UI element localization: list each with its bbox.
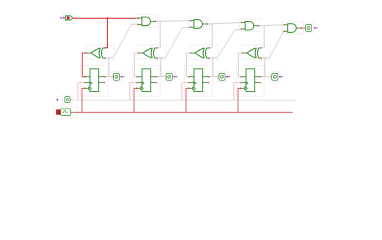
pin dot A4 in2 [283,31,285,33]
flip-flop FF1 [85,69,105,92]
wire Q4 to U4 in2 [261,57,269,59]
wire FF3 Q to probe [209,76,219,78]
pin dot U4 in2 [260,57,262,59]
label probe Q4 [279,76,283,77]
pin dot FF4 EN [240,82,242,84]
label probe Q1 [121,76,125,77]
label probe Q2 [173,76,177,77]
pin dot A4 in1 [283,24,285,26]
component box clock [54,107,78,119]
probe Q2 display [166,73,172,80]
component box AND A3 [240,19,261,32]
wire Q3 to U3 in2 [209,57,217,59]
component box FF3 [185,65,213,96]
component box input T [64,14,75,24]
wire A3 out to A4 in1 [259,24,284,27]
wire Q4 diagonal to A4 in2 [269,32,283,58]
component box input R [63,95,73,104]
pin dot FF2 nQ [156,82,158,84]
wire FF4 Q to probe [261,76,272,78]
pin dot A2 out [207,23,209,25]
wire Q1 to U1 in2 [105,57,113,59]
pin dot U2 in1 [156,47,158,49]
pin dot FF3 CLK [188,88,190,90]
wire Q2 to U2 in2 [157,57,165,59]
component box probe Q1 [112,72,122,82]
wire Q3 diagonal to A3 in2 [217,30,234,58]
pin dot FF4 D [240,76,242,78]
wire diagonal tail to A2 in2 [183,27,190,29]
wire U2 out to FF2 D [134,53,138,77]
wire clock rail [72,111,293,113]
pin dot U1 in1 [104,47,106,49]
component box probe OUT [304,23,314,33]
probe Q3 display [219,73,225,80]
pin dot FF4 CLK [240,88,242,90]
pin dot A2 in1 [189,20,191,22]
pin dot FF3 D [188,76,190,78]
pin dot FF4 nQ [260,82,262,84]
label probe OUT [314,27,318,28]
pin dot FF2 Q [156,76,158,78]
probe OUT display [306,25,312,32]
wire Q1 branch vertical [108,58,110,77]
wire T3 drop to U3 in1 [209,24,212,48]
wire diagonal tail to A4 in2 [282,31,285,33]
wire clock riser FF3 [186,88,189,112]
pin dot U4 in1 [260,47,262,49]
pin dot FF2 D [136,76,138,78]
pin dot A2 in2 [189,26,191,28]
pin dot A3 in1 [241,22,243,24]
wire Q3 branch vertical [212,58,214,77]
wire Q1 diagonal to A1 in2 [113,24,131,58]
pin dot FF1 CLK [84,88,86,90]
pin dot U3 in2 [208,57,210,59]
wire T rail drop to U1 in1 [105,18,107,48]
pin dot FF3 nQ [208,82,210,84]
wire clock riser FF1 [82,88,85,112]
component box XOR U2 [138,45,166,59]
and gate A1 [138,17,155,26]
pin dot U3 in1 [208,47,210,49]
wire FF1 Q to probe [105,76,113,78]
input pin T [65,16,72,20]
wire reset branch FF2 [130,83,137,101]
wire clock riser FF4 [238,88,241,112]
pin dot A1 in2 [137,24,139,26]
wire Q2 branch vertical [160,58,162,77]
pin dot A1 out [155,21,157,23]
junction T rail / XOR1 drop [106,17,108,19]
component box probe Q4 [270,72,280,82]
wire diagonal tail to A1 in2 [132,23,138,25]
probe Q1 display [113,73,119,80]
pin dot FF1 Q [104,76,106,78]
wire U3 out to FF3 D [186,53,190,77]
pin dot A3 out [258,25,260,27]
component box probe Q2 [165,72,175,82]
pin dot U2 out [137,52,139,54]
pin dot FF4 Q [260,76,262,78]
wire diagonal tail to A3 in2 [235,29,241,31]
wire A2 out to A3 in1 [208,23,242,24]
pin dot U4 out [241,52,243,54]
pin dot A4 out [301,27,303,29]
component box AND A1 [136,15,157,28]
pin dot FF2 EN [136,82,138,84]
and gate A4 [284,24,301,33]
component box XOR U4 [242,45,270,59]
pin dot U1 in2 [104,57,106,59]
and gate A3 [242,21,259,30]
pin dot A3 in2 [241,28,243,30]
flip-flop FF2 [137,69,157,92]
xor gate U2 [138,48,157,58]
flip-flop FF4 [241,69,261,92]
pin dot U1 out [85,52,87,54]
component box AND A4 [282,21,303,34]
input pin R [65,97,72,103]
pin dot probe Q2 [165,76,167,78]
label input R [57,99,59,101]
component box XOR U1 [86,45,114,59]
pin dot FF1 D [84,76,86,78]
wire T4 drop to U4 in1 [261,26,264,48]
pin dot probe Q1 [112,76,114,78]
component box XOR U3 [190,45,218,59]
component box probe Q3 [218,72,228,82]
wire Q2 diagonal to A2 in2 [165,28,182,58]
pin dot FF1 nQ [104,82,106,84]
clock generator CLK [56,109,72,116]
label input T [60,17,64,18]
and gate A2 [190,20,207,29]
wire clock riser FF2 [134,88,137,112]
wire FF2 Q to probe [157,76,166,78]
pin dot FF2 CLK [136,88,138,90]
pin dot FF3 Q [208,76,210,78]
wire A1 out to A2 in1 [156,20,190,23]
wire T2 drop to U2 in1 [157,21,160,47]
wire reset branch FF1 [78,83,85,101]
pin dot FF3 EN [188,82,190,84]
wire U4 out to FF4 D [238,53,242,77]
label probe Q3 [226,76,230,77]
wire reset branch FF4 [234,83,241,101]
pin dot probe Q4 [271,76,273,78]
xor gate U1 [86,48,105,58]
pin dot A1 in1 [137,17,139,19]
component box FF1 [81,65,109,96]
probe Q4 display [272,73,278,80]
component box FF2 [133,65,161,96]
wire A4 out to probe OUT [301,27,305,29]
wire T rail (input T to AND1 in1) [73,17,139,19]
wire Q4 branch vertical [264,58,266,77]
wire U1 out to FF1 D [82,53,86,77]
flip-flop FF3 [189,69,209,92]
wire reset rail [72,99,297,101]
pin dot probe Q3 [218,76,220,78]
xor gate U3 [190,48,209,58]
pin dot U2 in2 [156,57,158,59]
component box FF4 [237,65,265,96]
xor gate U4 [242,48,261,58]
component box AND A2 [188,17,209,30]
pin dot U3 out [189,52,191,54]
wire reset branch FF3 [182,83,189,101]
pin dot FF1 EN [84,82,86,84]
